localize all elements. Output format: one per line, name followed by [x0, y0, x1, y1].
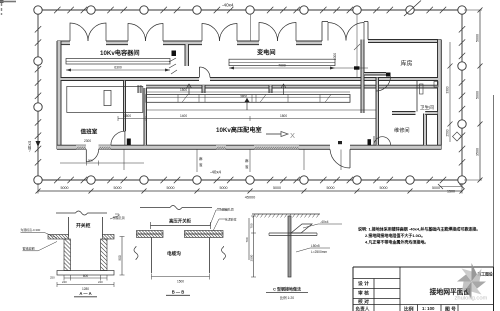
svg-text:审 核: 审 核 [358, 290, 369, 297]
svg-text:5000: 5000 [380, 186, 388, 190]
svg-text:比例 1:20: 比例 1:20 [280, 295, 294, 300]
svg-text:6300: 6300 [114, 66, 122, 70]
storeroom top wall [368, 40, 441, 43]
ground grid ring bottom conductor [38, 177, 462, 183]
svg-text:700: 700 [245, 237, 249, 242]
svg-text:800: 800 [83, 274, 89, 278]
svg-text:5000: 5000 [476, 34, 480, 42]
svg-text:-40x4: -40x4 [210, 170, 222, 175]
storeroom left wall [361, 40, 364, 114]
svg-text:1: 100: 1: 100 [422, 306, 435, 311]
detail A-A label right lead [110, 214, 125, 220]
svg-text:900: 900 [88, 159, 93, 163]
svg-text:设 计: 设 计 [358, 280, 369, 287]
svg-text:7000: 7000 [278, 64, 286, 68]
svg-text:变电间: 变电间 [257, 49, 276, 57]
entrance porch wall [322, 22, 368, 42]
duty room small cabinet [104, 90, 111, 105]
upper row dimension line [147, 88, 350, 92]
detail A-A base slab [57, 271, 114, 276]
window sill bottom wall 1 [76, 145, 86, 149]
svg-text:说明: 1.接地体采用镀锌扁钢 -40x4,并与基础内主筋焊: 说明: 1.接地体采用镀锌扁钢 -40x4,并与基础内主筋焊接成可靠连接。 [358, 226, 480, 232]
svg-text:2.接地网接地电阻值不大于1.0Ω。: 2.接地网接地电阻值不大于1.0Ω。 [365, 232, 425, 238]
door D10 bottom wall [330, 141, 350, 168]
detail B-B right dim [245, 218, 249, 260]
duty room equipment outline [67, 86, 143, 112]
svg-text:负责人: 负责人 [356, 306, 370, 311]
door D11 in partition A [200, 67, 211, 78]
svg-text:5000: 5000 [476, 91, 480, 99]
svg-text:X: X [290, 131, 295, 140]
svg-text:5000: 5000 [114, 186, 122, 190]
door D9 repair room [368, 136, 391, 145]
detail A-A trench wall right [101, 239, 108, 271]
axis drop line x250 [249, 15, 251, 41]
ground grid ring left conductor [35, 10, 41, 180]
svg-text:2500: 2500 [446, 129, 450, 136]
detail A-A label lead bottom [23, 242, 58, 251]
axis line x250 tail [249, 150, 251, 173]
in-plan right dimension [446, 42, 453, 142]
detail B-B trench walls [152, 238, 210, 274]
axis line x304 tail [303, 150, 305, 171]
svg-text:-40x4: -40x4 [320, 220, 329, 224]
svg-text:库房: 库房 [401, 60, 413, 68]
section mark A [187, 84, 192, 95]
svg-text:zhulong.com: zhulong.com [455, 296, 488, 302]
line below switchgear [146, 109, 376, 111]
capacitor rack [66, 59, 170, 65]
svg-text:1500: 1500 [447, 190, 455, 194]
svg-text:电缆沟: 电缆沟 [167, 250, 181, 257]
axis arrow X [266, 131, 295, 140]
detail C left dim [250, 216, 257, 277]
svg-text:45000: 45000 [245, 196, 256, 200]
partition wall A horizontal [61, 78, 439, 81]
svg-text:L50x5: L50x5 [311, 244, 320, 248]
svg-text:2500: 2500 [250, 254, 254, 261]
washroom left wall [416, 81, 418, 112]
svg-text:雀: 雀 [199, 162, 203, 167]
svg-text:1400: 1400 [180, 114, 187, 118]
svg-text:A — A: A — A [79, 291, 91, 296]
svg-text:10Kv电容器间: 10Kv电容器间 [100, 49, 140, 57]
door D2 top wall [128, 23, 163, 41]
svg-text:10Kv高压配电室: 10Kv高压配电室 [216, 126, 262, 134]
svg-text:沟顶标高-0.300: 沟顶标高-0.300 [21, 227, 41, 232]
svg-text:2300: 2300 [84, 139, 91, 143]
detail B-B lead label 1 [210, 207, 234, 226]
svg-text:5000: 5000 [432, 186, 440, 190]
svg-text:900: 900 [118, 255, 122, 261]
svg-text:1500: 1500 [124, 114, 131, 118]
section mark A2 [281, 84, 286, 95]
ground grid ring right conductor [459, 10, 465, 180]
svg-text:B — B: B — B [172, 290, 185, 295]
svg-text:5000: 5000 [61, 186, 69, 190]
wall pier 3 [269, 85, 272, 93]
svg-text:-40x4: -40x4 [222, 3, 234, 8]
svg-text:240: 240 [62, 280, 67, 284]
svg-text:5000: 5000 [220, 186, 228, 190]
axis drop line x357 [356, 14, 358, 81]
detail B-B wall breaks [134, 246, 226, 260]
section mark B [245, 98, 250, 110]
detail A-A title label [74, 291, 97, 297]
door D1 top wall [70, 23, 106, 41]
detail C ground line [252, 214, 320, 218]
detail A-A break line top [56, 211, 107, 215]
detail B-B break line top [140, 206, 212, 210]
axis line x341 tail [340, 150, 342, 171]
right dimension line [464, 8, 483, 183]
corner crop mark [0, 0, 16, 15]
detail C horizontal bar [269, 233, 317, 236]
detail C title [266, 286, 308, 301]
detail C gusset plate [291, 224, 312, 233]
svg-text:1500: 1500 [177, 280, 184, 284]
svg-text:5000: 5000 [327, 186, 335, 190]
axis slash through circle [404, 1, 421, 17]
grid axis circles top row [34, 6, 466, 14]
wall pier 2 [202, 85, 205, 93]
window sill bottom wall 4 [254, 145, 299, 149]
storeroom bottom wall [364, 73, 386, 76]
svg-text:麻: 麻 [245, 158, 249, 163]
detail A-A floor slab left [48, 235, 69, 240]
detail B-B lead label 2 [213, 217, 237, 232]
detail A-A trench wall left [64, 239, 71, 271]
duty door dimension line [60, 159, 144, 166]
door D5 entrance [328, 23, 364, 41]
detail C lead label right [296, 220, 342, 254]
svg-text:3500: 3500 [476, 148, 480, 156]
detail B-B top slab left [137, 231, 164, 238]
svg-text:1000: 1000 [333, 53, 337, 60]
detail A-A floor slab right [103, 235, 115, 240]
wall pier 1 [138, 85, 141, 93]
detail A-A cabinet sides [69, 217, 103, 237]
washroom bottom wall [392, 112, 438, 115]
svg-text:1800: 1800 [280, 114, 287, 118]
building top wall [57, 41, 322, 45]
ground grid ring top conductor [38, 7, 462, 13]
svg-text:-40x4: -40x4 [27, 140, 32, 152]
svg-text:镀锌扁钢: 镀锌扁钢 [23, 246, 35, 251]
detail B-B title label [166, 290, 190, 296]
detail A-A right dim [118, 237, 125, 276]
svg-text:3800: 3800 [240, 95, 247, 99]
watermark pinwheel logo [457, 263, 486, 300]
title block frame [353, 267, 494, 311]
distribution box symbol [169, 51, 177, 75]
svg-text:雀: 雀 [245, 164, 249, 169]
detail B-B cabinet bottom [151, 222, 211, 229]
axis line x124 tail [123, 150, 125, 171]
svg-text:预留孔洞: 预留孔洞 [222, 207, 234, 212]
ground lead-in arrow left [36, 141, 41, 147]
svg-text:1500: 1500 [180, 88, 187, 92]
partition wall x376 right rooms [376, 78, 379, 146]
svg-text:值班室: 值班室 [81, 128, 98, 136]
door D7 duty room interior [111, 131, 131, 145]
svg-text:水泥砂浆: 水泥砂浆 [225, 217, 237, 222]
svg-text:240: 240 [98, 280, 103, 284]
capacitor room pier [185, 44, 189, 66]
detail C vertical bar [288, 216, 291, 277]
svg-text:L=2500mm: L=2500mm [311, 250, 327, 254]
bottom dimension line [36, 183, 465, 194]
axis line x197 tail [196, 150, 198, 173]
svg-text:4.凡正常不带电金属外壳均须接地。: 4.凡正常不带电金属外壳均须接地。 [365, 239, 428, 245]
sheet border right edge [493, 95, 495, 267]
bottom right corner dimension 1500 [438, 184, 465, 194]
detail B-B top slab right [185, 231, 224, 238]
svg-text:维修间: 维修间 [394, 126, 410, 134]
grid axis circles bottom row [34, 176, 466, 184]
partition wall x144 [144, 88, 147, 145]
partition wall x424 divider [424, 114, 427, 146]
door D6 duty room exterior [86, 149, 98, 162]
svg-text:700: 700 [250, 223, 254, 228]
transformer row dimension [229, 64, 368, 70]
detail A-A label lead top [21, 227, 58, 238]
transformer row [229, 59, 335, 65]
partition wall B horizontal [146, 85, 438, 88]
svg-text:校 对: 校 对 [358, 298, 369, 305]
building left wall [57, 41, 61, 149]
svg-text:高压开关柜: 高压开关柜 [169, 218, 192, 225]
svg-text:250: 250 [50, 276, 55, 280]
window sill bottom wall 2 [99, 145, 112, 149]
washroom fixture [420, 84, 424, 94]
window sill bottom wall 3 [216, 145, 226, 149]
door D3 top wall [202, 24, 237, 42]
door D4 top wall [259, 23, 296, 42]
grid axis circles left column [34, 57, 42, 111]
svg-text:C 型钢接地做法: C 型钢接地做法 [273, 286, 301, 292]
interior dimension line y118 [118, 114, 376, 121]
building right wall [438, 40, 442, 150]
svg-text:麻: 麻 [199, 156, 203, 161]
capacitor rack dimension [66, 66, 170, 72]
grid axis circles right column [458, 62, 466, 128]
detail A-A dim line 2 [50, 276, 114, 292]
svg-text:5000: 5000 [167, 186, 175, 190]
switchgear row main [146, 95, 350, 103]
detail A-A dim line 1 [62, 274, 107, 284]
axis diamond marker [453, 132, 462, 141]
svg-text:3300: 3300 [446, 86, 450, 93]
building bottom wall [57, 145, 441, 149]
svg-text:开关柜: 开关柜 [76, 222, 91, 229]
door D8 storeroom [376, 73, 391, 92]
svg-text:5000: 5000 [273, 186, 281, 190]
detail B-B bottom dim [152, 274, 210, 284]
svg-text:卫生间: 卫生间 [420, 104, 434, 111]
partition wall x124 [124, 81, 126, 132]
